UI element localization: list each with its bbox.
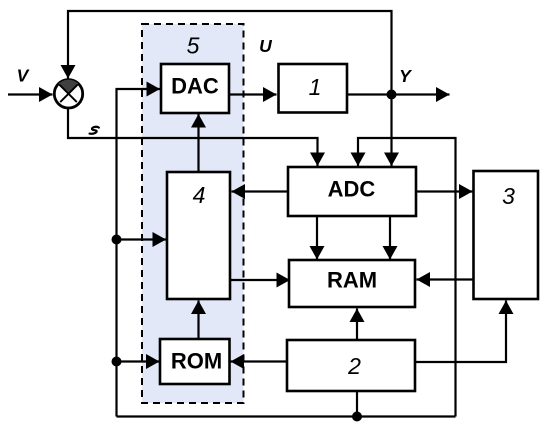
junction bus-ROM xyxy=(112,357,122,367)
wire block4 to DAC xyxy=(197,114,199,172)
svg-text:DAC: DAC xyxy=(171,74,219,99)
wire block1 output Y xyxy=(347,93,450,95)
wire block2 to block3 xyxy=(415,301,506,363)
block 1 xyxy=(279,64,348,113)
wire block2 to bottom bus xyxy=(356,391,358,417)
wire left bus to DAC xyxy=(117,89,161,417)
summing junction xyxy=(54,80,82,108)
svg-text:ROM: ROM xyxy=(171,349,222,374)
wire Y to ADC xyxy=(390,95,392,166)
svg-text:Y: Y xyxy=(399,66,412,86)
wire block2 to ROM xyxy=(231,360,288,362)
wire block3 tap to RAM xyxy=(417,278,474,280)
wire bus to ROM xyxy=(117,360,160,362)
svg-text:5: 5 xyxy=(187,33,200,59)
wire error signal to ADC xyxy=(68,108,318,166)
wire feedback from Y to summer top xyxy=(68,11,392,95)
svg-text:ADC: ADC xyxy=(328,177,376,202)
wire ADC to RAM left xyxy=(316,216,318,260)
wire V input xyxy=(8,93,53,95)
wire bottom bus xyxy=(117,415,456,417)
wire ADC to block3 xyxy=(416,190,473,192)
RAM box xyxy=(289,260,415,307)
dashed controller region 5 xyxy=(142,24,244,403)
wire DAC to block1 xyxy=(229,93,277,95)
block 2 xyxy=(287,340,415,391)
svg-text:1: 1 xyxy=(309,74,322,100)
svg-text:2: 2 xyxy=(347,353,361,379)
block 4 xyxy=(167,172,230,299)
wire right riser to ADC xyxy=(358,138,456,417)
svg-text:U: U xyxy=(259,36,272,56)
ADC box xyxy=(288,167,416,216)
wire block4 to RAM xyxy=(230,279,290,281)
junction bottom bus xyxy=(352,412,362,422)
svg-text:V: V xyxy=(17,66,30,86)
wire ADC to RAM right xyxy=(389,216,391,260)
wire block2 to RAM xyxy=(356,309,358,341)
ROM box xyxy=(160,339,230,384)
svg-text:RAM: RAM xyxy=(327,268,377,293)
wire bus to block4 xyxy=(117,238,167,240)
label epsilon xyxy=(90,127,99,134)
DAC box xyxy=(161,64,229,113)
junction bus-block4 xyxy=(112,235,122,245)
wire ADC to block4 xyxy=(232,190,289,192)
svg-text:3: 3 xyxy=(502,183,515,209)
wire ROM to block4 xyxy=(197,301,199,340)
junction Y xyxy=(387,90,397,100)
block 3 xyxy=(474,171,539,299)
svg-text:4: 4 xyxy=(193,182,206,208)
